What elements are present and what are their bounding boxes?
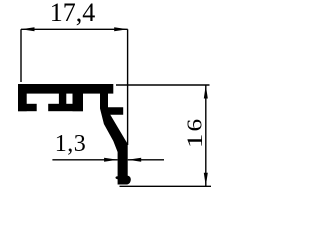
profile left foot (18, 104, 37, 111)
arrowhead 1,3 pointing right (104, 158, 118, 162)
extension line bottom of 16 (120, 185, 212, 187)
extension line right of 17,4 (127, 29, 129, 145)
arrowhead right of 17,4 (114, 27, 128, 31)
svg-text:1,3: 1,3 (55, 131, 87, 157)
extension line left of 17,4 (20, 29, 22, 82)
svg-text:17,4: 17,4 (50, 0, 96, 27)
arrowhead 1,3 pointing left (128, 158, 142, 162)
profile left leg (18, 93, 27, 111)
dimension line 16 (205, 85, 207, 186)
extension line top of 16 (116, 84, 210, 86)
dimension line 1,3 right segment (128, 159, 164, 161)
profile middle leg (59, 93, 66, 105)
svg-text:6: 6 (183, 119, 207, 132)
arrowhead 16 top (204, 85, 208, 99)
profile middle foot band (48, 104, 83, 111)
dimension line 17,4 (21, 28, 128, 30)
profile second column (73, 93, 84, 111)
profile top bar (18, 84, 113, 94)
svg-text:1: 1 (182, 134, 207, 149)
profile right column, tooth, diagonal web and bottom leg (100, 93, 131, 185)
arrowhead left of 17,4 (21, 27, 35, 31)
arrowhead 16 bottom (204, 173, 208, 187)
dimension line 1,3 left segment (52, 159, 117, 161)
